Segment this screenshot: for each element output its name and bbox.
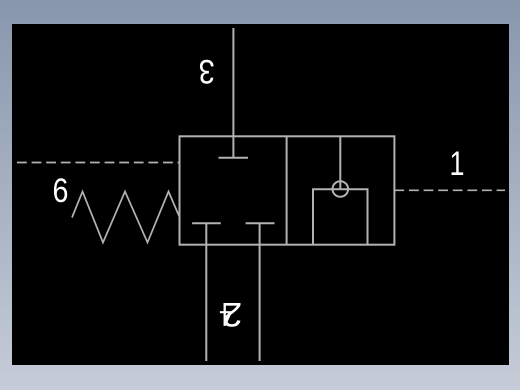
svg-text:6: 6 — [52, 171, 68, 210]
port 4 seat crossbar — [246, 222, 275, 224]
svg-text:3: 3 — [199, 52, 215, 91]
label 4 (rotated 180) — [220, 304, 231, 326]
port 4 wire (bottom right) — [259, 223, 261, 361]
svg-text:1: 1 — [450, 144, 465, 183]
port 3 seat crossbar — [219, 157, 249, 159]
right dashed centerline (port 1) — [394, 189, 505, 191]
pilot piston small rect — [313, 189, 368, 244]
valve body outer box — [180, 136, 395, 244]
pilot stem wire — [339, 136, 341, 189]
port 3 wire (top) — [232, 28, 234, 158]
spring — [72, 192, 180, 243]
port 2 wire (bottom left) — [205, 223, 207, 361]
left dashed centerline — [17, 162, 180, 164]
valve body divider — [286, 136, 288, 244]
pilot circle — [333, 181, 349, 197]
port 2 seat crossbar — [192, 222, 221, 224]
